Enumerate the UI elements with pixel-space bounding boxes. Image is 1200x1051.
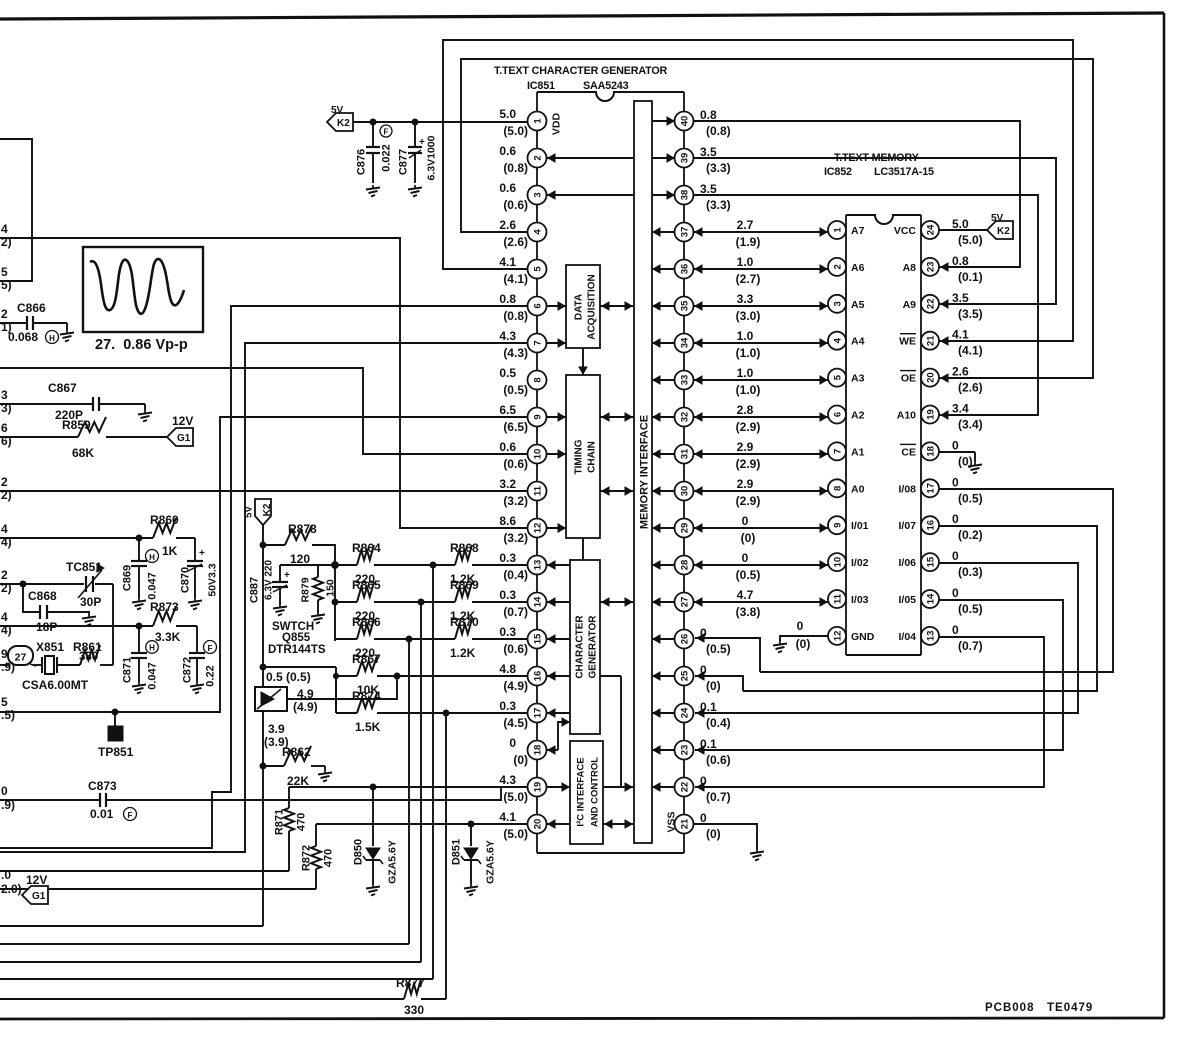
IC852 pin 16 I/07 (898, 516, 939, 534)
svg-text:22: 22 (680, 782, 691, 793)
wire IC851-37 to IC852-1 (693, 228, 828, 236)
svg-text:(0): (0) (513, 753, 528, 767)
svg-text:6.3V1000: 6.3V1000 (426, 135, 438, 180)
svg-text:5: 5 (833, 374, 844, 380)
IC851 pin 12 (499, 514, 546, 545)
svg-text:2): 2) (1, 235, 12, 249)
node IC852 pin20 voltage (952, 365, 983, 395)
svg-text:(2.9): (2.9) (736, 420, 761, 434)
wire pin14 stub (547, 598, 570, 606)
svg-text:19: 19 (533, 782, 544, 793)
svg-text:2.6: 2.6 (499, 218, 516, 232)
svg-text:(3.0): (3.0) (736, 309, 761, 323)
IC852 pin 21 WE (899, 332, 939, 350)
svg-text:2: 2 (1, 568, 8, 582)
svg-text:23: 23 (680, 745, 691, 756)
svg-text:(4.1): (4.1) (958, 344, 983, 358)
svg-text:A7: A7 (851, 225, 865, 237)
svg-text:8.6: 8.6 (499, 514, 516, 528)
svg-text:27. 0.86 Vp-p: 27. 0.86 Vp-p (95, 337, 188, 353)
IC852 pin 12 GND (828, 627, 875, 645)
svg-text:C871: C871 (122, 657, 134, 683)
svg-text:0.6: 0.6 (499, 181, 516, 195)
wire stub U-turn (0, 139, 32, 281)
wire row to Q855 emitter (0, 925, 263, 927)
resistor R872 (301, 824, 335, 889)
svg-text:37: 37 (680, 227, 691, 238)
wire IC852 I/O15 to IC851 pin24 (695, 563, 1078, 717)
wire row to R866 bus (0, 639, 409, 944)
svg-text:R867: R867 (352, 652, 381, 666)
svg-text:TE0479: TE0479 (1047, 1002, 1093, 1014)
wire pin9 stub (546, 413, 566, 421)
IC851 pin 27 (675, 593, 694, 612)
IC851 memory interface block (634, 101, 652, 843)
wire TC-CG link (582, 538, 584, 560)
resistor R869 (418, 578, 527, 623)
wire pin28 stub (652, 561, 675, 569)
IC852 pin 20 OE (900, 369, 939, 387)
svg-text:0.8: 0.8 (952, 254, 969, 268)
svg-text:GZA5.6Y: GZA5.6Y (387, 840, 399, 884)
wire Q855 junction row (263, 667, 339, 713)
svg-text:K2: K2 (337, 118, 350, 129)
svg-text:21: 21 (680, 818, 691, 829)
svg-text:0.8: 0.8 (499, 292, 516, 306)
wire pin20 row (316, 821, 527, 827)
svg-text:14: 14 (926, 593, 937, 604)
svg-text:10: 10 (833, 557, 844, 568)
svg-text:5.0: 5.0 (952, 217, 969, 231)
capacitor C887 (249, 560, 336, 616)
svg-text:14: 14 (533, 596, 544, 607)
node pin34 voltage (736, 329, 761, 360)
wire pin19 row (289, 784, 527, 790)
IC851 VDD label (551, 112, 563, 135)
svg-text:30P: 30P (80, 595, 101, 609)
IC851 pin 1 (499, 107, 546, 138)
IC852 pin 3 A5 (828, 295, 865, 313)
svg-text:IC852: IC852 (824, 166, 852, 178)
IC852 pin 14 I/05 (898, 590, 939, 608)
IC851 pin 23 (675, 741, 694, 760)
svg-text:6: 6 (1, 421, 8, 435)
svg-text:A2: A2 (851, 410, 865, 422)
svg-text:1: 1 (833, 227, 844, 233)
svg-text:F: F (128, 811, 133, 820)
svg-text:R865: R865 (352, 578, 381, 592)
svg-text:7: 7 (833, 449, 844, 454)
svg-text:15: 15 (533, 633, 544, 644)
svg-text:24: 24 (926, 224, 937, 235)
svg-text:4: 4 (833, 337, 844, 343)
svg-text:5: 5 (533, 266, 544, 272)
wire pin19 stub (546, 783, 570, 791)
IC851 pin 30 (675, 482, 694, 501)
wire IC851-35 to IC852-3 (693, 302, 828, 310)
IC851 pin 32 (675, 408, 694, 427)
svg-text:11: 11 (533, 485, 544, 496)
IC851 pin 22 (675, 778, 694, 797)
wire Q855 emitter column (260, 711, 266, 926)
svg-text:(0.4): (0.4) (706, 716, 731, 730)
node pin23 voltage (700, 737, 731, 767)
wire pin13 stub (547, 561, 570, 569)
node IC852 pin14 voltage (952, 586, 983, 616)
svg-text:1.0: 1.0 (737, 255, 754, 269)
IC851 pin 4 (499, 218, 546, 249)
svg-text:6: 6 (533, 303, 544, 308)
wire IC851-29 to IC852-9 (693, 524, 828, 532)
IC851 pin 40 (675, 112, 694, 131)
svg-text:3.3: 3.3 (737, 292, 754, 306)
svg-text:0.047: 0.047 (147, 662, 159, 690)
svg-text:9: 9 (1, 647, 8, 661)
svg-text:(3.5): (3.5) (958, 307, 983, 321)
node pin26 voltage (700, 626, 731, 656)
IC851 pin 18 (509, 736, 546, 767)
svg-text:H: H (149, 644, 155, 653)
wire Q855 output (287, 676, 397, 699)
wire pin30 stub (652, 487, 675, 495)
svg-text:(3.3): (3.3) (706, 161, 731, 175)
svg-text:+: + (284, 570, 290, 581)
capacitor C866 (0, 301, 74, 344)
IC851 pin 38 (675, 186, 694, 205)
svg-text:0: 0 (952, 475, 959, 489)
wire pin27 stub (652, 598, 675, 606)
svg-text:36: 36 (680, 264, 691, 275)
svg-text:(2.6): (2.6) (503, 235, 528, 249)
svg-text:28: 28 (680, 560, 691, 571)
IC851 pin 5 (499, 255, 546, 286)
svg-text:(4.9): (4.9) (503, 679, 528, 693)
wire pin36 stub (652, 265, 675, 273)
wire pin5 loop to IC852 WE (443, 40, 1073, 345)
IC852 pin 11 I/03 (828, 590, 869, 608)
svg-text:F: F (384, 128, 389, 137)
svg-text:5: 5 (1, 265, 8, 279)
svg-text:0: 0 (952, 623, 959, 637)
svg-text:0: 0 (952, 586, 959, 600)
wire row to pin12 (0, 238, 527, 528)
node IC852 pin19 voltage (952, 402, 983, 432)
svg-text:3.5: 3.5 (700, 145, 717, 159)
svg-text:26: 26 (680, 634, 691, 645)
IC851 I2C interface block (570, 741, 603, 844)
svg-text:(4.9): (4.9) (293, 700, 318, 714)
waveform caption (95, 337, 188, 353)
resistor R866 (335, 615, 409, 660)
svg-text:0.3: 0.3 (499, 551, 516, 565)
svg-text:R878: R878 (288, 522, 317, 536)
wire pin40 stub (652, 117, 675, 125)
wire pin31 stub (652, 450, 675, 458)
svg-text:5V: 5V (244, 506, 255, 518)
svg-text:2): 2) (1, 581, 12, 595)
wire I2C-MI link (603, 820, 634, 828)
resistor R874 (336, 676, 527, 734)
IC852 pin 9 I/01 (828, 516, 869, 534)
svg-text:.9): .9) (1, 660, 15, 674)
svg-text:1.0: 1.0 (737, 329, 754, 343)
wire pin39 to IC852 A9 (693, 158, 1056, 308)
memory IC852 body outline (846, 215, 921, 655)
svg-text:D850: D850 (353, 839, 365, 865)
power flag G1 12V bottom (22, 873, 48, 904)
svg-text:30: 30 (680, 486, 691, 497)
svg-text:(4.3): (4.3) (503, 346, 528, 360)
IC851 pin 13 (499, 551, 546, 582)
svg-text:4: 4 (1, 522, 8, 536)
svg-text:X851: X851 (36, 640, 64, 654)
IC851 pin 34 (675, 334, 694, 353)
IC851 character generator block (570, 560, 600, 734)
svg-text:(0): (0) (796, 637, 811, 651)
wire pin17 stub (547, 709, 570, 717)
wire IC851-28 to IC852-10 (693, 561, 828, 569)
svg-text:0.047: 0.047 (147, 572, 159, 600)
IC851 pin 7 (499, 329, 546, 360)
resistor R867 (336, 652, 527, 697)
wire row to pin7 (0, 343, 527, 852)
svg-text:0: 0 (1, 784, 8, 798)
node pin22 voltage (700, 774, 731, 804)
resistor R865 (335, 578, 421, 623)
IC852 pin 17 I/08 (898, 479, 939, 497)
svg-text:3.9: 3.9 (268, 722, 285, 736)
svg-text:(0.6): (0.6) (503, 642, 528, 656)
svg-text:(0.2): (0.2) (958, 528, 983, 542)
svg-text:(2.7): (2.7) (736, 272, 761, 286)
wire pin37 stub (652, 228, 675, 236)
wire IC852 I/O17 to IC851 pin26 (760, 489, 1113, 672)
wire pin20 stub (547, 820, 570, 828)
IC851 pin 29 (675, 519, 694, 538)
svg-text:68K: 68K (72, 446, 94, 460)
svg-text:TP851: TP851 (98, 745, 134, 759)
node IC852 pin24 voltage (952, 217, 983, 247)
IC852 pin 5 A3 (828, 369, 865, 387)
svg-text:15: 15 (926, 556, 937, 567)
wire IC851-32 to IC852-6 (693, 413, 828, 421)
svg-text:F: F (208, 644, 213, 653)
svg-text:OE: OE (901, 373, 916, 385)
svg-text:29: 29 (680, 523, 691, 534)
svg-text:4.8: 4.8 (499, 662, 516, 676)
svg-text:R860: R860 (150, 513, 179, 527)
IC851 pin 10 (499, 440, 546, 471)
svg-text:(5.0): (5.0) (958, 233, 983, 247)
IC851 data acquisition block (566, 265, 600, 348)
svg-text:0.01: 0.01 (90, 807, 114, 821)
svg-text:A4: A4 (851, 336, 865, 348)
svg-text:0.8: 0.8 (700, 108, 717, 122)
svg-text:1K: 1K (162, 544, 178, 558)
svg-text:0.5: 0.5 (499, 366, 516, 380)
svg-text:(0.5): (0.5) (503, 383, 528, 397)
IC852 pin 6 A2 (828, 406, 865, 424)
IC851 pin 14 (499, 588, 546, 619)
wire pin12 stub (546, 524, 566, 532)
diode D850 (353, 787, 399, 896)
svg-text:(1.0): (1.0) (736, 383, 761, 397)
svg-text:A5: A5 (851, 299, 865, 311)
svg-text:(1.9): (1.9) (736, 235, 761, 249)
svg-text:3: 3 (1, 388, 8, 402)
resistor R862 (263, 745, 332, 788)
svg-text:C887: C887 (249, 577, 261, 603)
svg-text:5.0: 5.0 (499, 107, 516, 121)
svg-text:31: 31 (680, 448, 691, 459)
wire row to R871 (0, 870, 289, 872)
svg-text:3.2: 3.2 (499, 477, 516, 491)
svg-text:20: 20 (926, 372, 937, 383)
svg-text:(0): (0) (706, 827, 721, 841)
svg-text:(5.0): (5.0) (503, 827, 528, 841)
svg-text:12V: 12V (172, 414, 193, 428)
node IC852 pin21 voltage (952, 328, 983, 358)
svg-text:0: 0 (952, 438, 959, 452)
svg-text:4.1: 4.1 (499, 255, 516, 269)
svg-text:(0.7): (0.7) (503, 605, 528, 619)
wire pin15 stub (547, 635, 570, 643)
waveform inset box (83, 247, 203, 332)
node pin24 voltage (700, 700, 731, 730)
node pin31 voltage (736, 440, 761, 471)
svg-text:8: 8 (833, 486, 844, 491)
svg-text:I/07: I/07 (898, 520, 916, 532)
wire CG-MI links (600, 598, 634, 791)
svg-text:R871: R871 (274, 809, 286, 835)
wire row to pin9 (0, 417, 527, 715)
wire IC852 I/O14 to IC851 pin23 (695, 600, 1063, 754)
IC852 pin 2 A6 (828, 258, 865, 276)
wire pin2 stub (546, 154, 634, 162)
capacitor C870 (180, 538, 219, 610)
svg-text:6): 6) (1, 434, 12, 448)
wire pin29 stub (652, 524, 675, 532)
wire row to R865 bus (0, 602, 421, 962)
svg-text:0: 0 (797, 619, 804, 633)
svg-text:CSA6.00MT: CSA6.00MT (22, 678, 89, 692)
svg-text:H: H (149, 553, 155, 562)
svg-text:2.8: 2.8 (737, 403, 754, 417)
svg-text:8: 8 (533, 377, 544, 382)
svg-text:2: 2 (1, 475, 8, 489)
resistor R873 (0, 600, 197, 644)
trimmer TC851 (0, 560, 113, 609)
svg-text:GND: GND (851, 631, 875, 643)
svg-text:R859: R859 (62, 418, 91, 432)
svg-text:13: 13 (533, 560, 544, 571)
IC852 pin 19 A10 (897, 406, 939, 424)
svg-text:17: 17 (926, 483, 937, 494)
svg-text:MEMORY INTERFACE: MEMORY INTERFACE (639, 415, 651, 529)
svg-text:I/04: I/04 (898, 631, 916, 643)
IC852 pin 13 I/04 (898, 627, 939, 645)
wire IC851-30 to IC852-8 (693, 487, 828, 495)
svg-text:0: 0 (700, 811, 707, 825)
wire row to R864 bus (0, 565, 433, 979)
wire pin32 stub (652, 413, 675, 421)
IC852 pin 1 A7 (828, 221, 865, 239)
svg-text:5V: 5V (991, 213, 1004, 224)
svg-text:4.7: 4.7 (737, 588, 754, 602)
svg-text:22: 22 (926, 299, 937, 310)
svg-text:23: 23 (926, 262, 937, 273)
svg-text:ACQUISITION: ACQUISITION (587, 274, 598, 340)
svg-text:R862: R862 (282, 745, 311, 759)
svg-text:13: 13 (926, 631, 937, 642)
svg-text:120: 120 (290, 552, 310, 566)
capacitor C869 (122, 538, 159, 610)
wire pin39 stub (652, 154, 675, 162)
svg-text:A0: A0 (851, 483, 865, 495)
svg-text:4.3: 4.3 (499, 329, 516, 343)
wire IC852 GND pin to ground (773, 619, 828, 653)
svg-text:I/05: I/05 (898, 594, 916, 606)
svg-text:0.5 (0.5): 0.5 (0.5) (266, 670, 311, 684)
IC851 VSS label (666, 811, 678, 832)
wire IC852 I/O13 to IC851 pin22 (695, 637, 1044, 791)
capacitor C867 (0, 381, 152, 422)
svg-text:6.3V 220: 6.3V 220 (264, 560, 275, 600)
node pin36 voltage (736, 255, 761, 286)
wire row to pin10 (0, 368, 527, 454)
left edge clipped labels (1, 222, 22, 896)
svg-text:C866: C866 (17, 301, 46, 315)
svg-text:330: 330 (404, 1003, 424, 1017)
wire pin38 stub (652, 191, 675, 199)
svg-text:(3.3): (3.3) (706, 198, 731, 212)
svg-text:4: 4 (1, 610, 8, 624)
wire IC851-27 to IC852-11 (693, 598, 828, 606)
IC852 pin 23 A8 (903, 258, 939, 276)
svg-text:IC851: IC851 (527, 80, 555, 92)
svg-text:50V3.3: 50V3.3 (207, 563, 219, 596)
svg-text:3.4: 3.4 (952, 402, 969, 416)
svg-text:2: 2 (833, 264, 844, 269)
svg-text:R866: R866 (352, 615, 381, 629)
IC851 pin 15 (499, 625, 546, 656)
svg-text:38: 38 (680, 190, 691, 201)
resistor R879 (300, 565, 337, 624)
wire row to R872 (0, 888, 316, 890)
svg-text:470: 470 (296, 813, 308, 831)
IC852 pin 10 I/02 (828, 553, 869, 571)
svg-text:(4.5): (4.5) (503, 716, 528, 730)
svg-text:CHAIN: CHAIN (587, 441, 598, 473)
wire IC851-36 to IC852-2 (693, 265, 828, 273)
svg-text:11: 11 (833, 593, 844, 604)
resistor R871 (274, 787, 308, 871)
node pin35 voltage (736, 292, 761, 323)
svg-text:(6.5): (6.5) (503, 420, 528, 434)
svg-text:G1: G1 (177, 433, 191, 444)
svg-text:TC851: TC851 (66, 560, 102, 574)
resistor R864 (335, 541, 433, 586)
IC851 pin 33 (675, 371, 694, 390)
node 3.9 label (264, 722, 289, 749)
IC851 pin 39 (675, 149, 694, 168)
capacitor C868 (23, 584, 96, 634)
svg-text:3.3K: 3.3K (155, 630, 181, 644)
svg-text:(0.8): (0.8) (706, 124, 731, 138)
svg-text:R874: R874 (352, 689, 381, 703)
IC851 pin 19 (499, 773, 546, 804)
IC851 pin 35 (675, 297, 694, 316)
